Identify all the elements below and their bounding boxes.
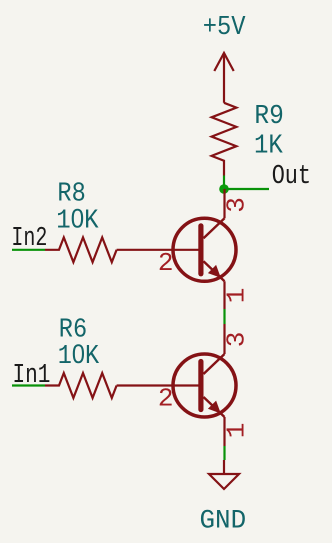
resistor R9 bbox=[212, 103, 237, 176]
svg-text:3: 3 bbox=[222, 332, 252, 348]
resistor R8 bbox=[45, 237, 117, 262]
junction node Out bbox=[219, 184, 229, 194]
svg-text:R9: R9 bbox=[254, 101, 283, 131]
svg-text:10K: 10K bbox=[58, 340, 100, 372]
svg-text:GND: GND bbox=[200, 505, 247, 536]
svg-text:1K: 1K bbox=[254, 130, 283, 161]
wire In2 bbox=[12, 249, 45, 251]
svg-text:1: 1 bbox=[222, 423, 252, 439]
svg-text:10K: 10K bbox=[56, 204, 99, 236]
svg-text:3: 3 bbox=[222, 197, 252, 213]
wire In1 bbox=[12, 384, 45, 386]
svg-text:In2: In2 bbox=[11, 223, 47, 254]
ground symbol GND bbox=[209, 460, 239, 489]
power symbol +5V bbox=[214, 53, 233, 103]
wire R9 to node Out bbox=[223, 176, 225, 190]
transistor lower: collector pin 3 bbox=[223, 324, 225, 354]
transistor upper: collector pin 3 bbox=[223, 189, 225, 218]
svg-text:1: 1 bbox=[222, 288, 252, 304]
transistor lower (NPN) bbox=[117, 354, 236, 417]
transistor upper (NPN) bbox=[117, 218, 236, 281]
wire between transistors bbox=[223, 309, 225, 324]
svg-text:2: 2 bbox=[158, 248, 174, 278]
transistor lower: emitter pin 1 bbox=[223, 417, 225, 446]
transistor upper: emitter pin 1 bbox=[223, 281, 225, 309]
wire emitter to GND bbox=[223, 446, 225, 460]
wire node Out to label bbox=[224, 188, 269, 190]
svg-text:2: 2 bbox=[158, 384, 174, 414]
svg-text:In1: In1 bbox=[13, 361, 51, 391]
resistor R6 bbox=[45, 373, 117, 398]
svg-text:+5V: +5V bbox=[203, 12, 246, 43]
svg-text:Out: Out bbox=[272, 162, 311, 192]
